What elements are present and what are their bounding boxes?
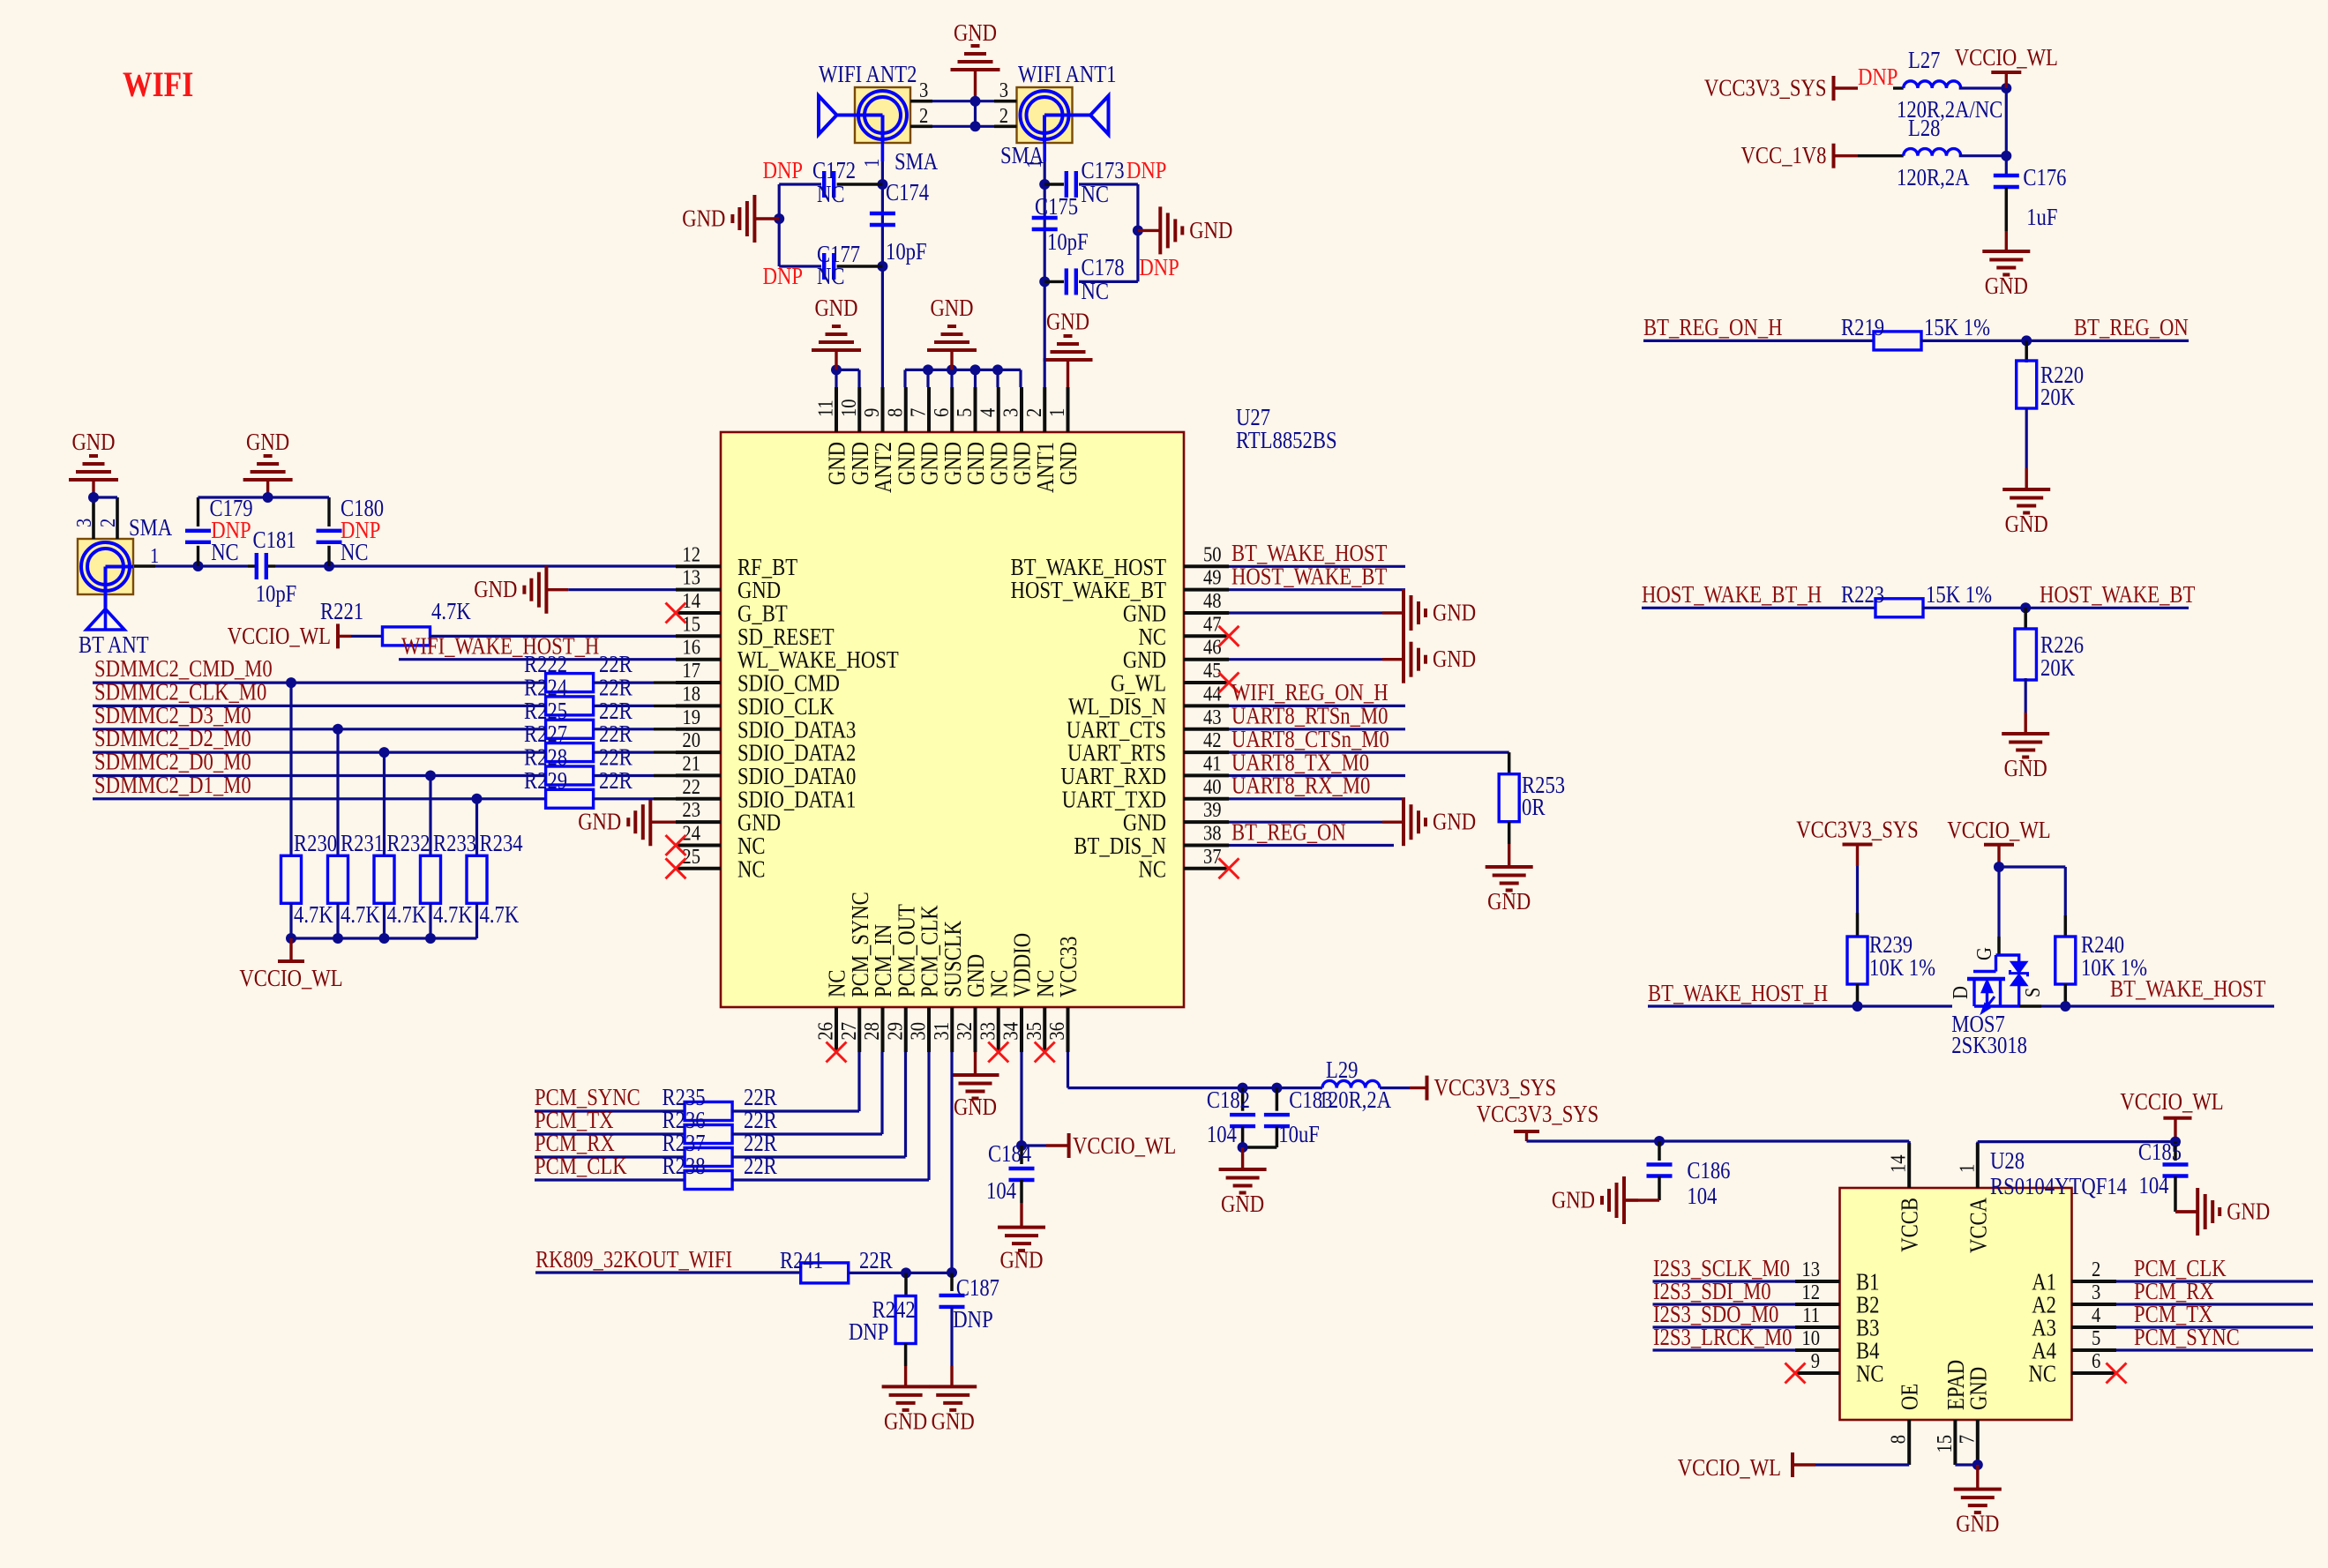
svg-text:BT_WAKE_HOST_H: BT_WAKE_HOST_H [1648,980,1828,1006]
wire C179 C180 top link [198,492,330,503]
svg-text:4.7K: 4.7K [387,901,427,928]
resistor R223 15K 1% [1841,581,2189,617]
svg-text:36: 36 [1045,1022,1069,1041]
svg-text:R221: R221 [320,598,363,624]
svg-text:21: 21 [682,751,700,775]
wire net PCM_TX [2116,1301,2313,1327]
resistor R226 20K [2015,608,2084,734]
wire R238 to U27 pin [732,1052,929,1180]
capacitor C179 NC DNP [185,495,253,566]
wire net HOST_WAKE_BT_H [1642,581,1876,608]
svg-text:ANT2: ANT2 [870,442,896,493]
svg-text:4.7K: 4.7K [341,901,380,928]
wire net PCM_RX [2116,1278,2313,1304]
svg-text:C184: C184 [988,1140,1032,1167]
wire R231 to SDMMC row [333,724,343,856]
svg-text:32: 32 [953,1022,977,1041]
svg-text:1uF: 1uF [2026,204,2057,230]
ground GND below C182 [1219,1169,1267,1217]
capacitor C175 10pF [1032,193,1089,255]
svg-text:WL_DIS_N: WL_DIS_N [1068,693,1166,720]
svg-text:U28: U28 [1990,1147,2025,1174]
svg-text:C175: C175 [1035,193,1078,220]
power VCC3V3_SYS right of L29 [1410,1074,1556,1101]
svg-text:NC: NC [1139,855,1167,882]
capacitor C180 NC DNP [317,495,385,566]
svg-text:38: 38 [1203,822,1222,846]
wire SUSCLK pin31 down [947,1052,957,1278]
svg-text:DNP: DNP [1127,157,1166,183]
U27 pin 35 NC [1022,970,1059,1063]
svg-text:NC: NC [1856,1361,1884,1387]
capacitor C176 1uF [1994,164,2067,251]
wire net SDMMC2_D2_M0 [93,725,546,752]
svg-text:GND: GND [246,429,289,455]
svg-text:15K 1%: 15K 1% [1924,314,1990,340]
connector WIFI ANT2 SMA [819,61,939,175]
wire net BT_REG_ON [2074,314,2189,340]
connector WIFI ANT1 SMA [999,61,1117,168]
U27 pin 16 WL_WAKE_HOST [676,636,899,674]
U27 pin 2 ANT1 [1022,387,1059,493]
svg-text:WIFI: WIFI [123,64,193,104]
svg-text:C173: C173 [1082,157,1125,183]
wire VCCB rail [1527,1136,1910,1146]
wire net UART8_CTSn_M0 pin 42 [1229,726,1509,774]
svg-text:28: 28 [860,1022,884,1041]
U27 pin 45 G_WL [1111,659,1239,697]
svg-text:BT_WAKE_HOST: BT_WAKE_HOST [1011,554,1167,580]
U27 pin 19 SDIO_DATA3 [676,706,856,743]
svg-text:3: 3 [999,78,1008,102]
svg-text:22R: 22R [744,1153,777,1179]
U28 pin 5 A4 [2032,1326,2116,1364]
svg-text:15: 15 [1933,1435,1957,1453]
wire net UART8_RTSn_M0 pin 43 [1229,703,1405,729]
svg-text:RS0104YTQF14: RS0104YTQF14 [1990,1173,2127,1199]
resistor R219 15K 1% [1841,314,2189,350]
svg-text:50: 50 [1203,542,1222,566]
svg-text:C174: C174 [886,179,930,205]
svg-text:104: 104 [986,1177,1016,1204]
wire net SDMMC2_CMD_M0 [93,655,546,683]
U27 pin 24 NC [666,822,766,860]
svg-text:GND: GND [932,1407,975,1434]
svg-text:C186: C186 [1687,1157,1730,1183]
wire VDDIO pin34 down [1016,1052,1027,1151]
wire net PCM_SYNC [535,1084,685,1111]
svg-text:2SK3018: 2SK3018 [1951,1032,2027,1058]
svg-text:27: 27 [837,1022,861,1041]
svg-text:BT_WAKE_HOST: BT_WAKE_HOST [2110,975,2266,1002]
svg-text:GND: GND [985,442,1012,485]
svg-text:R229: R229 [524,767,567,794]
wire ANT1 pin1 column to U27 pin 2 [1039,143,1050,388]
IC U27 RTL8852BS body [721,404,1337,1007]
svg-text:BT ANT: BT ANT [79,631,149,658]
svg-text:31: 31 [930,1022,954,1041]
U27 pin 15 SD_RESET [676,612,835,650]
svg-text:4.7K: 4.7K [433,901,473,928]
svg-text:NC: NC [737,855,766,882]
wire net PCM_CLK [2116,1255,2313,1281]
power VCC3V3_SYS at L27 [1704,75,1858,101]
U27 pin 46 GND [1123,636,1229,674]
svg-text:9: 9 [1811,1349,1820,1373]
U27 pin 12 RF_BT [676,542,798,580]
wire net BT_WAKE_HOST_H [1648,980,1952,1012]
U27 pin 25 NC [666,845,766,883]
wire antenna pin3 row [910,96,1017,107]
U27 pin 48 GND [1123,589,1229,627]
svg-text:30: 30 [907,1022,931,1041]
U28 pin 8 OE [1887,1384,1923,1465]
svg-text:10: 10 [1801,1326,1820,1350]
wire EPAD GND link [1955,1460,1982,1490]
U28 pin 14 VCCB [1887,1143,1923,1252]
U28 pin 6 NC [2029,1349,2127,1387]
wire R232 to SDMMC row [379,747,390,856]
svg-text:18: 18 [682,682,700,706]
svg-text:DNP: DNP [1139,254,1179,280]
wire WIFI_WAKE_HOST_H to pin 16 [399,633,676,660]
svg-text:49: 49 [1203,566,1222,590]
svg-text:VCC3V3_SYS: VCC3V3_SYS [1434,1074,1557,1101]
ground GND below R253 [1486,867,1533,915]
wire OE to VCCIO_WL [1815,1463,1909,1466]
U27 pin 14 G_BT [666,589,789,627]
svg-text:UART8_RX_M0: UART8_RX_M0 [1231,773,1370,799]
wire gate column to MOS7 [1997,867,2000,955]
capacitor C177 NC DNP [763,241,883,289]
svg-text:GND: GND [1123,601,1166,627]
U27 pin 8 GND [883,387,919,485]
svg-text:5: 5 [953,408,977,417]
U27 pin 17 SDIO_CMD [676,659,840,697]
svg-text:29: 29 [883,1022,907,1041]
svg-text:2: 2 [1022,408,1046,417]
ground GND at pin 32 [952,1052,999,1120]
ground GND above pin 11 [812,295,861,370]
ground GND below C184 [998,1228,1045,1273]
svg-text:R230: R230 [294,830,337,856]
svg-text:GND: GND [930,295,973,321]
svg-text:10pF: 10pF [886,238,927,265]
svg-text:GND: GND [578,809,621,835]
svg-text:BT_DIS_N: BT_DIS_N [1074,833,1166,859]
resistor R234 4.7K [467,830,523,938]
ground GND below C187 [929,1386,977,1434]
capacitor C178 NC DNP [1044,254,1179,304]
U27 pin 30 PCM_CLK [907,905,943,1052]
ground GND at pin 39 [1229,798,1476,846]
svg-text:40: 40 [1203,775,1222,799]
ground GND below R226 [2002,734,2049,781]
svg-text:VCC33: VCC33 [1055,937,1082,997]
svg-text:13: 13 [1801,1258,1820,1281]
U27 pin 13 GND [676,566,781,604]
svg-text:C181: C181 [253,526,296,553]
svg-text:GND: GND [1956,1511,1999,1537]
svg-text:GND: GND [814,295,857,321]
svg-text:VCC3V3_SYS: VCC3V3_SYS [1796,817,1919,843]
svg-text:HOST_WAKE_BT: HOST_WAKE_BT [2040,581,2196,608]
U27 pin 31 SUSCLK [930,921,966,1052]
U27 pin 10 GND [837,387,873,485]
svg-text:NC: NC [817,263,845,289]
U27 pin 34 VDDIO [999,933,1036,1052]
svg-text:DNP: DNP [849,1318,888,1345]
svg-text:104: 104 [1207,1121,1237,1147]
wire net UART8_TX_M0 pin 41 [1229,749,1405,775]
svg-text:GND: GND [682,205,725,232]
svg-text:17: 17 [682,659,700,683]
svg-text:13: 13 [682,566,700,590]
svg-text:47: 47 [1203,612,1222,636]
svg-text:15: 15 [682,612,700,636]
svg-text:G: G [1972,947,1996,960]
resistor R222 22R [524,651,676,692]
svg-text:16: 16 [682,636,700,660]
U27 pin 43 UART_CTS [1067,706,1229,743]
U27 pin 1 GND [1045,387,1082,485]
U27 pin 50 BT_WAKE_HOST [1011,542,1229,580]
svg-text:8: 8 [883,408,907,417]
svg-text:C182: C182 [1207,1086,1250,1113]
inductor L27 120R,2A/NC [1893,47,2011,123]
ground GND at U27 pin 23 [578,798,676,846]
U28 pin 10 B4 [1795,1326,1880,1364]
svg-text:0R: 0R [1522,794,1546,820]
svg-text:DNP: DNP [763,157,803,183]
power VCCIO_WL at C184 [1022,1132,1176,1159]
resistor R242 DNP [849,1273,916,1386]
svg-text:104: 104 [1687,1183,1717,1209]
svg-text:GND: GND [1221,1191,1264,1217]
ground GND above BT ANT [69,429,118,497]
wire C182 C183 bottom link [1238,1142,1277,1169]
svg-text:DNP: DNP [763,263,803,289]
resistor R224 22R [524,674,676,715]
svg-text:GND: GND [1965,1367,1991,1410]
resistor R221 4.7K [320,598,676,646]
svg-text:1: 1 [150,544,159,568]
svg-text:14: 14 [1887,1154,1911,1173]
inductor L29 120R,2A [1319,1057,1410,1113]
resistor R230 4.7K [281,830,338,938]
svg-text:GND: GND [2005,511,2048,537]
svg-text:R233: R233 [433,830,476,856]
ground GND at pin 46 [1229,636,1476,683]
svg-text:HOST_WAKE_BT: HOST_WAKE_BT [1231,564,1388,590]
svg-text:15K 1%: 15K 1% [1926,581,1992,608]
svg-text:D: D [1949,986,1972,999]
svg-text:R234: R234 [480,830,524,856]
wire R236 to U27 pin [732,1052,882,1134]
svg-text:5: 5 [2092,1326,2100,1350]
svg-text:NC: NC [1082,181,1110,207]
svg-text:22R: 22R [859,1247,893,1273]
U27 pin 39 GND [1123,798,1229,836]
ground GND above pin 6 [927,295,977,370]
U27 pin 26 NC [814,970,850,1063]
svg-text:BT_REG_ON: BT_REG_ON [1231,818,1346,845]
U27 pin 28 PCM_IN [860,924,896,1052]
svg-text:10K 1%: 10K 1% [1869,954,1935,981]
svg-text:R232: R232 [387,830,430,856]
resistor R238 22R [662,1153,777,1190]
svg-text:GND: GND [939,442,966,485]
svg-text:NC: NC [2029,1361,2057,1387]
ground GND at U27 pin 13 [474,566,676,614]
svg-text:3: 3 [999,408,1023,417]
svg-text:GND: GND [1433,646,1476,672]
svg-text:GND: GND [2004,755,2047,781]
svg-text:SDMMC2_D1_M0: SDMMC2_D1_M0 [94,772,251,798]
svg-text:ANT1: ANT1 [1032,442,1059,493]
svg-text:GND: GND [1123,810,1166,836]
svg-text:VCCIO_WL: VCCIO_WL [1947,817,2050,843]
resistor R227 22R [524,721,676,762]
U28 pin 12 B2 [1795,1281,1880,1318]
wire C172-C177 left loop [774,184,784,266]
U27 pin 40 UART_TXD [1062,775,1229,813]
svg-text:NC: NC [211,539,239,565]
ground GND below R242 [882,1386,930,1434]
resistor R235 22R [662,1084,777,1121]
wire RF_BT row from SMA to U27 pin 12 [134,561,676,571]
U28 pin 1 VCCA [1955,1143,1991,1253]
U27 pin 7 GND [907,387,943,485]
U27 pin 6 GND [930,387,966,485]
capacitor C174 10pF [870,179,930,265]
svg-text:8: 8 [1887,1435,1911,1444]
svg-text:1: 1 [1955,1164,1979,1173]
wire net PCM_SYNC [2116,1324,2313,1350]
wire net BT_REG_ON pin 38 [1229,818,1394,845]
U27 pin 41 UART_RXD [1060,751,1229,789]
wire net PCM_CLK [535,1153,685,1180]
wire net SDMMC2_D3_M0 [93,702,546,729]
svg-text:3: 3 [2092,1281,2100,1304]
svg-text:WIFI ANT2: WIFI ANT2 [819,61,917,87]
svg-text:NC: NC [341,539,369,565]
U27 pin 49 HOST_WAKE_BT [1011,566,1229,604]
ground GND left of ANT2 caps [682,195,779,243]
svg-text:11: 11 [1802,1303,1820,1327]
svg-text:GND: GND [954,1094,997,1120]
resistor R233 4.7K [421,830,477,938]
U28 pin 9 NC [1785,1349,1884,1387]
svg-text:C172: C172 [812,157,856,183]
wire net I2S3_SDO_M0 [1653,1301,1796,1327]
wire ANT2 pin1 column to U27 pin 9 [877,143,887,388]
U27 pin 37 NC [1139,845,1239,883]
svg-text:41: 41 [1203,751,1222,775]
svg-text:VCCIO_WL: VCCIO_WL [1678,1454,1781,1481]
resistor R236 22R [662,1107,777,1144]
power VCCIO_WL at U28 OE [1678,1452,1815,1481]
U28 pin 13 B1 [1795,1258,1880,1295]
svg-text:9: 9 [860,408,884,417]
resistor R229 22R [524,767,676,809]
svg-text:19: 19 [682,706,700,729]
power VCCIO_WL at R221 [228,623,351,649]
capacitor C173 NC DNP [1044,157,1166,207]
svg-text:L27: L27 [1908,47,1941,73]
svg-text:BT_REG_ON_H: BT_REG_ON_H [1643,314,1783,340]
U27 pin 20 SDIO_DATA2 [676,728,856,766]
wire R234 to SDMMC row [472,794,483,856]
wire net PCM_TX [535,1107,685,1134]
svg-text:GND: GND [1487,888,1531,915]
svg-text:VCCIO_WL: VCCIO_WL [228,623,331,649]
U28 pin 2 A1 [2032,1258,2116,1295]
svg-text:GND: GND [917,442,943,485]
U27 pin 9 ANT2 [860,387,896,493]
svg-text:VCCIO_WL: VCCIO_WL [1073,1132,1176,1159]
svg-text:GND: GND [2227,1198,2270,1225]
svg-text:GND: GND [1123,646,1166,673]
svg-text:NC: NC [817,181,845,207]
svg-text:7: 7 [1955,1435,1979,1444]
U27 pin 44 WL_DIS_N [1068,682,1229,720]
svg-text:10uF: 10uF [1278,1121,1320,1147]
svg-text:2: 2 [999,104,1008,128]
wire net UART8_RX_M0 pin 40 [1229,773,1405,799]
U27 pin 23 GND [676,798,781,836]
ground GND above pin 1 [1044,309,1093,388]
U27 pin 4 GND [976,387,1012,485]
label DNP for L27 [1858,63,1898,90]
svg-text:C187: C187 [956,1274,999,1301]
svg-text:44: 44 [1203,682,1222,706]
wire net BT_WAKE_HOST right [2019,975,2274,1012]
svg-text:R238: R238 [662,1153,706,1179]
resistor R240 10K 1% [2055,915,2147,1006]
ground GND at pin 48 [1229,589,1476,637]
ground GND left of C186 [1552,1176,1638,1224]
svg-text:GND: GND [1009,442,1036,485]
U27 pin 42 UART_RTS [1067,728,1229,766]
wire net SDMMC2_D1_M0 [93,772,546,799]
U27 pin 22 SDIO_DATA1 [676,775,856,813]
wire net I2S3_LRCK_M0 [1653,1324,1796,1350]
power VCCIO_WL top right [1955,44,2058,88]
wire net WIFI_REG_ON_H pin 44 [1229,679,1405,706]
svg-text:GND: GND [1552,1187,1595,1213]
svg-text:DNP: DNP [953,1306,992,1333]
svg-text:VCCIO_WL: VCCIO_WL [239,965,342,991]
svg-text:12: 12 [682,542,700,566]
svg-text:VCC3V3_SYS: VCC3V3_SYS [1704,75,1827,101]
svg-text:UART_RTS: UART_RTS [1067,740,1166,766]
svg-text:UART_RXD: UART_RXD [1060,763,1166,789]
wire R233 to SDMMC row [425,771,436,856]
svg-text:120R,2A: 120R,2A [1897,164,1970,190]
svg-text:1: 1 [860,159,884,168]
svg-text:R241: R241 [780,1247,823,1273]
wire R235 to U27 pin [732,1052,859,1111]
svg-text:23: 23 [682,798,700,822]
power VCC_1V8 at L28 [1741,142,1859,168]
svg-text:GND: GND [474,576,517,602]
svg-text:43: 43 [1203,706,1222,729]
svg-text:VCCIO_WL: VCCIO_WL [2120,1088,2223,1115]
svg-text:R231: R231 [341,830,384,856]
wire BT ANT pins 3 2 to GND [88,492,117,539]
svg-text:7: 7 [907,408,931,417]
